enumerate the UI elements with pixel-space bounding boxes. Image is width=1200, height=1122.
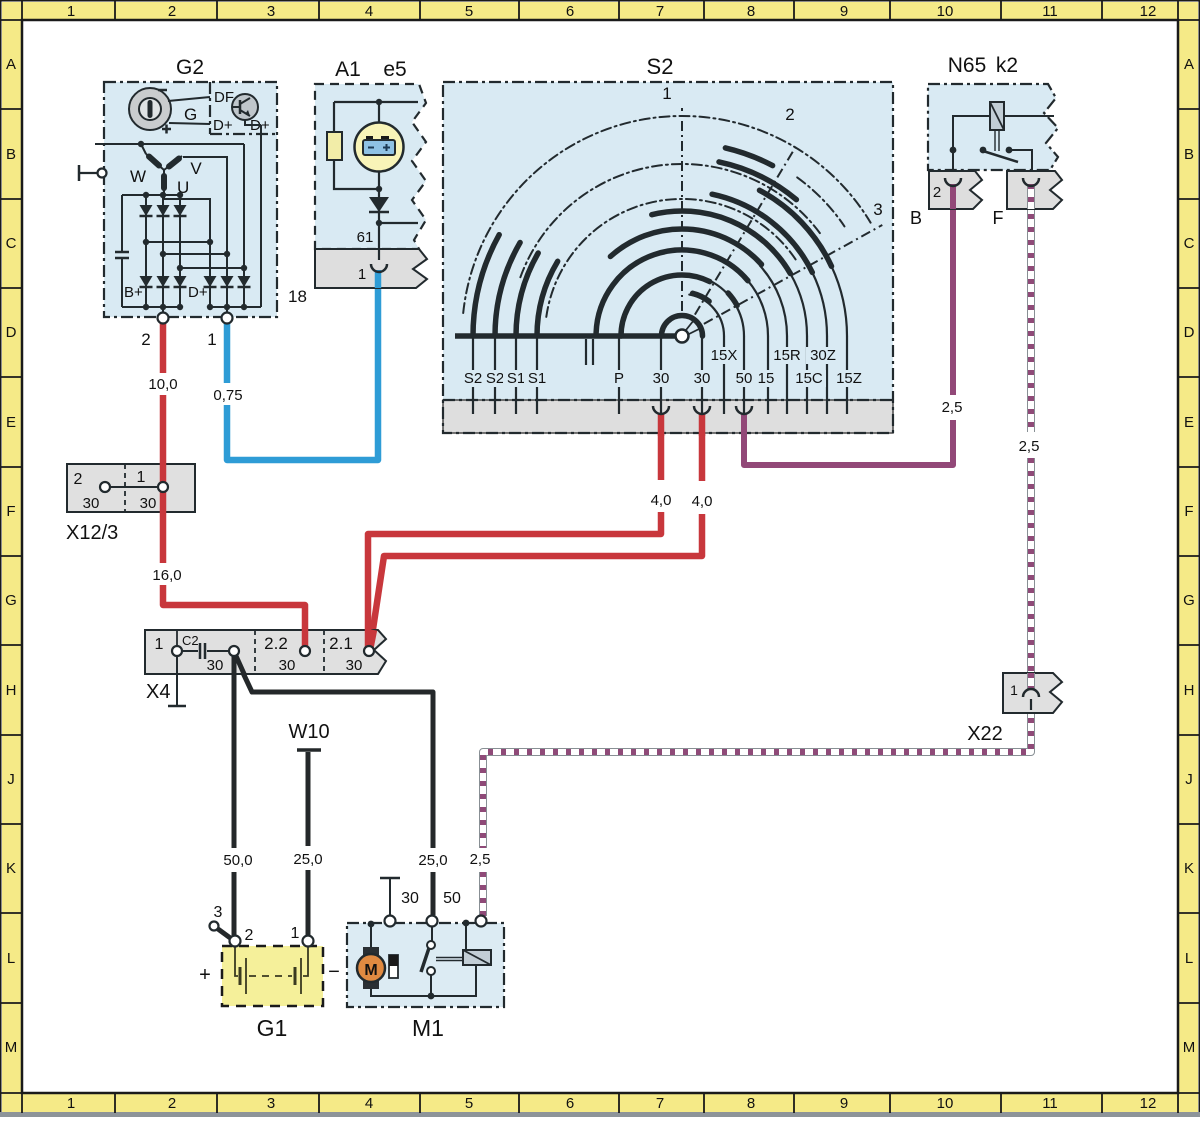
svg-text:k2: k2 <box>996 54 1018 77</box>
svg-text:K: K <box>6 860 16 877</box>
svg-text:1: 1 <box>137 469 146 486</box>
svg-text:30: 30 <box>401 890 419 907</box>
generator G (rotor symbol) <box>129 88 270 134</box>
charge indicator lamp e5 <box>355 123 404 172</box>
svg-text:30: 30 <box>279 657 296 674</box>
svg-text:30Z: 30Z <box>810 347 836 364</box>
svg-text:F: F <box>1184 503 1193 520</box>
svg-text:L: L <box>1185 950 1193 967</box>
svg-text:B+: B+ <box>124 284 143 301</box>
M1 junction dots <box>368 920 470 1000</box>
svg-text:8: 8 <box>747 1095 755 1112</box>
svg-text:C2: C2 <box>182 633 199 648</box>
svg-text:30: 30 <box>346 657 363 674</box>
svg-text:16,0: 16,0 <box>152 567 181 584</box>
svg-text:D: D <box>6 324 17 341</box>
X4 terminals <box>172 646 374 656</box>
M1 ground terminal 30 <box>380 878 419 916</box>
M1 socket terminals <box>385 916 487 927</box>
wire red 4,0 from S2 terminal 30 (left) to X4 terminal 2.1 <box>368 414 661 647</box>
svg-text:W: W <box>130 167 146 186</box>
svg-text:3: 3 <box>267 3 275 20</box>
svg-text:9: 9 <box>840 1095 848 1112</box>
wire black 25,0 from W10 to G1 terminal 1 <box>306 752 311 936</box>
svg-text:V: V <box>190 159 202 178</box>
G2 internal wiring <box>95 120 261 313</box>
svg-text:50: 50 <box>443 890 461 907</box>
svg-text:G: G <box>1183 592 1195 609</box>
svg-text:G2: G2 <box>176 56 204 79</box>
A1 internal wiring <box>334 102 418 262</box>
svg-text:W10: W10 <box>288 721 329 743</box>
wire purple 2,5 from S2 terminal 50 to N65 terminal 2 <box>744 188 953 465</box>
svg-text:30: 30 <box>83 495 100 512</box>
svg-text:B: B <box>910 208 922 228</box>
svg-text:C: C <box>1184 235 1195 252</box>
svg-text:M: M <box>5 1039 18 1056</box>
svg-text:2.2: 2.2 <box>264 634 288 653</box>
svg-text:5: 5 <box>465 3 473 20</box>
N65 connector F <box>993 171 1063 228</box>
svg-text:X12/3: X12/3 <box>66 522 118 544</box>
capacitor C2 in X4 <box>182 643 229 659</box>
ignition starter switch S2 box <box>443 54 893 433</box>
terminal W10 <box>288 721 329 750</box>
S2 contact arcs (thick) <box>473 148 832 336</box>
svg-text:H: H <box>1184 682 1195 699</box>
svg-text:F: F <box>6 503 15 520</box>
svg-text:1: 1 <box>155 636 164 653</box>
svg-text:12: 12 <box>1140 1095 1157 1112</box>
svg-text:S1: S1 <box>528 370 546 387</box>
M1 internal wiring <box>371 923 479 996</box>
svg-text:50: 50 <box>736 370 753 387</box>
svg-text:30: 30 <box>140 495 157 512</box>
svg-text:5: 5 <box>465 1095 473 1112</box>
svg-text:0,75: 0,75 <box>213 387 242 404</box>
connector X4 <box>145 629 386 676</box>
svg-text:12: 12 <box>1140 3 1157 20</box>
svg-text:15C: 15C <box>795 370 823 387</box>
svg-text:18: 18 <box>288 287 307 306</box>
starter motor M <box>357 947 385 989</box>
svg-text:+: + <box>199 964 211 986</box>
svg-text:15R: 15R <box>773 347 801 364</box>
svg-text:30: 30 <box>694 370 711 387</box>
transistor (regulator) in G2 <box>232 94 258 120</box>
svg-text:9: 9 <box>840 3 848 20</box>
X4 ground <box>168 656 186 706</box>
A1 connector strip, terminal 1 <box>315 249 427 288</box>
alternator G2 box <box>104 56 277 317</box>
svg-text:M1: M1 <box>412 1015 444 1041</box>
wire blue 0,75 from G2 terminal 1 to A1 terminal 1 <box>227 272 378 460</box>
svg-text:G1: G1 <box>257 1015 288 1041</box>
svg-text:−: − <box>328 961 340 983</box>
instrument cluster A1 e5 box <box>315 58 426 249</box>
svg-text:K: K <box>1184 860 1194 877</box>
svg-text:2.1: 2.1 <box>329 634 353 653</box>
svg-text:7: 7 <box>656 3 664 20</box>
svg-text:M: M <box>364 962 377 979</box>
wire red 10,0/16,0 from G2 terminal 2 via X12/3 to X4 terminal 2.2 <box>163 318 305 647</box>
svg-text:2: 2 <box>74 471 83 488</box>
svg-text:10: 10 <box>937 1095 954 1112</box>
connector X12/3 <box>66 463 195 544</box>
svg-text:S2: S2 <box>647 54 674 79</box>
wire purple/white striped 2,5 from N65 terminal F via X22 to M1 <box>483 188 1031 916</box>
svg-text:2: 2 <box>933 184 941 201</box>
S2 socket wire stubs <box>661 414 744 436</box>
svg-text:30: 30 <box>207 657 224 674</box>
svg-text:2,5: 2,5 <box>470 851 491 868</box>
solenoid coil M1 <box>463 950 491 965</box>
svg-text:N65: N65 <box>948 54 987 77</box>
svg-text:J: J <box>1185 771 1193 788</box>
svg-text:4,0: 4,0 <box>651 492 672 509</box>
svg-text:3: 3 <box>214 904 223 921</box>
svg-text:D+: D+ <box>188 284 208 301</box>
svg-text:3: 3 <box>267 1095 275 1112</box>
svg-text:11: 11 <box>1042 3 1058 20</box>
svg-text:25,0: 25,0 <box>293 851 322 868</box>
svg-text:D: D <box>1184 324 1195 341</box>
svg-text:B: B <box>1184 146 1194 163</box>
relay N65 k2 box <box>928 54 1058 170</box>
svg-text:3: 3 <box>873 200 882 219</box>
svg-text:4,0: 4,0 <box>692 493 713 510</box>
svg-text:15: 15 <box>758 370 775 387</box>
svg-text:1: 1 <box>207 330 216 349</box>
G2 terminal 2 <box>141 313 168 350</box>
connector X22 terminal 1 <box>967 673 1062 745</box>
svg-text:11: 11 <box>1042 1095 1058 1112</box>
svg-text:4: 4 <box>365 3 373 20</box>
S2 bar tick symbol <box>586 339 593 365</box>
brush symbol in M1 <box>389 955 398 978</box>
svg-text:P: P <box>614 370 624 387</box>
svg-text:e5: e5 <box>383 58 406 81</box>
svg-text:H: H <box>6 682 17 699</box>
N65 internal wiring <box>953 116 1054 172</box>
svg-text:30: 30 <box>653 370 670 387</box>
starter motor M1 box <box>347 923 504 1041</box>
svg-text:F: F <box>993 208 1004 228</box>
diode in A1 <box>369 197 389 212</box>
S2 terminal leads <box>473 266 847 414</box>
svg-text:L: L <box>7 950 15 967</box>
svg-text:15X: 15X <box>711 347 738 364</box>
relay coil N65 <box>990 102 1004 130</box>
junction dots A1 <box>376 99 382 226</box>
svg-text:S1: S1 <box>507 370 525 387</box>
svg-text:X4: X4 <box>146 681 170 703</box>
svg-text:10: 10 <box>937 3 954 20</box>
svg-text:D+: D+ <box>213 117 233 134</box>
svg-text:DF: DF <box>214 89 234 106</box>
battery cells G1 <box>235 947 308 994</box>
svg-text:50,0: 50,0 <box>223 852 252 869</box>
svg-text:6: 6 <box>566 3 574 20</box>
wire black 50,0 from X4 to G1 terminal 2 <box>232 656 237 936</box>
wire red 4,0 from S2 terminal 30 (right) to X4 terminal 2.1 <box>370 414 702 649</box>
svg-text:C: C <box>6 235 17 252</box>
svg-text:A1: A1 <box>335 58 361 81</box>
svg-text:G: G <box>184 105 197 124</box>
label wire gauges <box>148 376 1039 869</box>
N65 connector B terminal 2 <box>910 171 982 228</box>
svg-text:1: 1 <box>358 266 366 283</box>
svg-text:61: 61 <box>357 229 374 246</box>
wire black 25,0 from X4 to M1 terminal 50 <box>236 658 433 915</box>
svg-text:1: 1 <box>67 1095 75 1112</box>
svg-text:2: 2 <box>245 927 254 944</box>
S2 common rail bar <box>455 333 676 339</box>
resistor in A1 <box>327 132 342 160</box>
svg-text:7: 7 <box>656 1095 664 1112</box>
svg-text:15Z: 15Z <box>836 370 862 387</box>
svg-text:S2: S2 <box>486 370 504 387</box>
svg-text:2: 2 <box>168 3 176 20</box>
svg-text:4: 4 <box>365 1095 373 1112</box>
junction dots G2 <box>138 141 247 310</box>
solenoid switch contacts M1 <box>421 941 435 975</box>
N65 junction dots <box>950 147 1013 154</box>
svg-text:2: 2 <box>141 330 150 349</box>
svg-text:G: G <box>5 592 17 609</box>
battery G1 box <box>199 946 340 1041</box>
svg-text:M: M <box>1183 1039 1196 1056</box>
svg-text:10,0: 10,0 <box>148 376 177 393</box>
svg-text:A: A <box>6 56 16 73</box>
svg-text:1: 1 <box>1010 682 1018 698</box>
svg-text:1: 1 <box>67 3 75 20</box>
S2 rotor pivot <box>676 320 700 343</box>
svg-text:E: E <box>1184 414 1194 431</box>
S2 terminal labels <box>460 347 866 387</box>
S2 sockets 30 30 50 <box>653 406 752 414</box>
svg-text:E: E <box>6 414 16 431</box>
S2 position lines 1 2 3 (dash-dot radials) <box>662 84 882 324</box>
svg-text:25,0: 25,0 <box>418 852 447 869</box>
svg-text:J: J <box>7 771 15 788</box>
svg-text:6: 6 <box>566 1095 574 1112</box>
G1 terminal 3 stub <box>210 904 234 940</box>
svg-text:8: 8 <box>747 3 755 20</box>
svg-text:1: 1 <box>291 925 300 942</box>
svg-text:2,5: 2,5 <box>1019 438 1040 455</box>
rectifier diodes G2 <box>124 195 251 307</box>
svg-text:X22: X22 <box>967 723 1003 745</box>
G1 terminal 1 <box>291 925 314 947</box>
svg-text:2: 2 <box>168 1095 176 1112</box>
svg-text:2,5: 2,5 <box>942 399 963 416</box>
svg-text:A: A <box>1184 56 1194 73</box>
ground stub at G2 left <box>79 165 107 181</box>
G2 terminal 1 <box>207 313 232 350</box>
G1 terminal 2 <box>230 927 254 947</box>
svg-text:1: 1 <box>662 84 671 103</box>
stator windings W V U <box>130 154 202 197</box>
svg-text:S2: S2 <box>464 370 482 387</box>
S2 dash-dot guide arcs <box>463 116 870 317</box>
svg-text:2: 2 <box>785 105 794 124</box>
svg-text:B: B <box>6 146 16 163</box>
